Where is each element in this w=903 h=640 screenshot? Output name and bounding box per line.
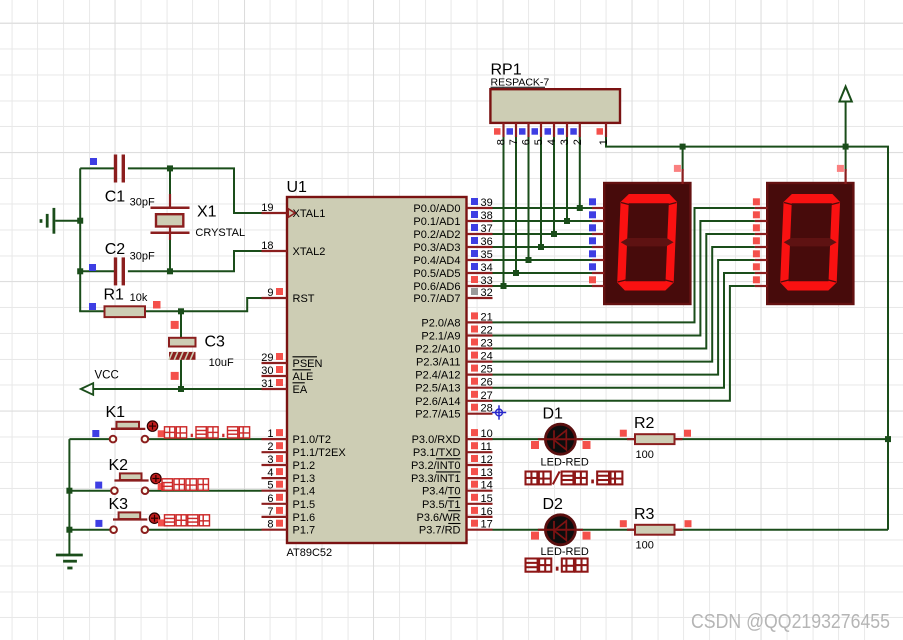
node junction RP1-3/P0.1 — [564, 218, 570, 224]
svg-text:22: 22 — [481, 325, 493, 337]
pin 31 (EA) — [262, 388, 288, 390]
svg-text:P3.2/INT0: P3.2/INT0 — [411, 460, 461, 472]
svg-text:9: 9 — [267, 287, 273, 299]
resistor pack RP1 body — [490, 89, 620, 123]
svg-text:37: 37 — [481, 223, 493, 235]
state square R2 left — [620, 430, 627, 437]
svg-text:21: 21 — [481, 311, 493, 323]
pin 36 (P0.3/AD3) — [467, 246, 493, 248]
pin 35 (P0.4/AD4) — [467, 259, 493, 261]
state square K2 left — [95, 482, 102, 489]
7-seg display DS1 body — [604, 183, 690, 304]
svg-text:R3: R3 — [634, 506, 655, 523]
label D1 function (red CJK bold) — [526, 472, 538, 485]
state square K1 right — [158, 430, 165, 437]
svg-text:1: 1 — [267, 428, 273, 440]
node junction RP1-6/P0.4 — [526, 257, 532, 263]
DS1 segment pin c — [592, 233, 604, 235]
DS1 segment pin a — [592, 207, 604, 209]
pin 37 (P0.2/AD2) — [467, 233, 493, 235]
DS1 segment pin b — [592, 220, 604, 222]
wire K3 row — [69, 529, 110, 531]
svg-text:7: 7 — [508, 139, 520, 145]
wire R3 to rail — [675, 529, 889, 531]
DS2 segment pin b — [755, 220, 767, 222]
wire crystal top branch — [169, 167, 171, 208]
pin 34 (P0.5/AD5) — [467, 272, 493, 274]
RP1 pin 3 — [566, 123, 568, 137]
pin 3 (P1.2) — [262, 464, 288, 466]
svg-text:VCC: VCC — [95, 370, 119, 382]
svg-text:P0.4/AD4: P0.4/AD4 — [413, 255, 460, 267]
pin 28 (P2.7/A15) — [467, 413, 493, 415]
svg-text:P1.1/T2EX: P1.1/T2EX — [293, 447, 347, 459]
pin 8 (P1.7) — [262, 529, 288, 531]
ground (crystal) — [53, 208, 56, 234]
state square R1 left — [89, 303, 96, 310]
power arrow (display supply) — [839, 87, 851, 102]
svg-text:P2.0/A8: P2.0/A8 — [421, 317, 460, 329]
svg-text:R1: R1 — [104, 287, 125, 304]
wire P0.2 net to display1 — [493, 233, 593, 235]
node junction at ground tap — [77, 218, 83, 224]
svg-text:19: 19 — [261, 202, 273, 214]
svg-text:6: 6 — [267, 493, 273, 505]
svg-text:P0.2/AD2: P0.2/AD2 — [413, 229, 460, 241]
svg-text:C1: C1 — [105, 189, 126, 206]
pin 27 (P2.6/A14) — [467, 400, 493, 402]
wire P0.4 net to display1 — [493, 259, 593, 261]
svg-text:24: 24 — [481, 351, 493, 363]
wire P2.1 net to display2 — [493, 221, 755, 336]
wire P0.3 net to display1 — [493, 246, 593, 248]
svg-text:35: 35 — [481, 249, 493, 261]
pin 6 (P1.5) — [262, 503, 288, 505]
7-seg display DS2 digit 0 — [780, 194, 841, 291]
svg-text:3: 3 — [559, 139, 571, 145]
svg-text:28: 28 — [481, 403, 493, 415]
svg-text:P1.6: P1.6 — [293, 512, 316, 524]
svg-text:K3: K3 — [109, 496, 129, 513]
switch K3 — [119, 512, 141, 519]
wire power arrow stem — [845, 99, 847, 148]
pin 10 (P3.0/RXD) — [467, 438, 493, 440]
svg-text:LED-RED: LED-RED — [541, 457, 589, 469]
RP1 pin 5 — [540, 123, 542, 137]
DS2 segment pin f — [755, 272, 767, 274]
DS2 segment pin c — [755, 233, 767, 235]
svg-text:P2.4/A12: P2.4/A12 — [415, 370, 460, 382]
DS2 segment pin g — [755, 285, 767, 287]
node junction C1/XTAL1 — [167, 165, 173, 171]
resistor R1 — [105, 306, 146, 317]
svg-text:4: 4 — [267, 467, 273, 479]
DS2 segment pin e — [755, 259, 767, 261]
svg-text:CSDN @QQ2193276455: CSDN @QQ2193276455 — [691, 610, 890, 633]
state square R3 right — [685, 520, 692, 527]
svg-text:15: 15 — [481, 493, 493, 505]
svg-text:AT89C52: AT89C52 — [287, 547, 333, 559]
wire K1 row — [69, 438, 109, 440]
wire P2.4 net to display2 — [493, 260, 755, 375]
pin 21 (P2.0/A8) — [467, 321, 493, 323]
label D2 function (red CJK bold) — [526, 559, 538, 572]
svg-text:K2: K2 — [109, 457, 129, 474]
svg-text:P0.7/AD7: P0.7/AD7 — [413, 293, 460, 305]
node junction rail/display1 anode — [680, 144, 686, 150]
svg-text:RST: RST — [293, 293, 315, 305]
svg-text:30: 30 — [261, 365, 273, 377]
pin 29 (PSEN) — [262, 362, 288, 364]
node junction RP1-5/P0.3 — [538, 244, 544, 250]
svg-text:34: 34 — [481, 262, 493, 274]
svg-text:EA: EA — [293, 384, 308, 396]
wire RP1 pin 3 vertical — [566, 137, 568, 222]
state square K2 right — [158, 483, 165, 490]
pin 25 (P2.4/A12) — [467, 374, 493, 376]
wire R2 to rail — [675, 438, 889, 440]
wire R1 right to RST pin 9 — [145, 298, 262, 311]
pin 9 (RST) — [262, 297, 288, 299]
svg-text:P1.4: P1.4 — [293, 486, 316, 498]
svg-text:P0.3/AD3: P0.3/AD3 — [413, 242, 460, 254]
svg-text:C3: C3 — [205, 334, 226, 351]
DS2 segment pin a — [755, 207, 767, 209]
RP1 pin 6 — [527, 123, 529, 137]
svg-text:PSEN: PSEN — [293, 358, 323, 370]
wire P2.2 net to display2 — [493, 234, 755, 349]
svg-text:K1: K1 — [106, 404, 126, 421]
node junction left bus at C2 — [77, 268, 83, 274]
svg-text:16: 16 — [481, 506, 493, 518]
svg-text:18: 18 — [261, 240, 273, 252]
svg-text:33: 33 — [481, 275, 493, 287]
wire P3.7 to D2 — [493, 529, 548, 531]
svg-text:26: 26 — [481, 377, 493, 389]
svg-text:11: 11 — [481, 441, 492, 453]
pin 24 (P2.3/A11) — [467, 361, 493, 363]
svg-text:8: 8 — [267, 519, 273, 531]
pin 17 (P3.7/RD) — [467, 529, 493, 531]
svg-text:13: 13 — [481, 467, 493, 479]
wire crystal bottom branch — [169, 232, 171, 272]
state square K1 left — [92, 430, 99, 437]
node junction C3/VCC rail — [178, 386, 184, 392]
svg-text:30pF: 30pF — [130, 251, 155, 263]
node junction C2/XTAL2 — [167, 268, 173, 274]
svg-text:P1.5: P1.5 — [293, 499, 316, 511]
capacitor C3 — [169, 338, 196, 347]
svg-text:P0.6/AD6: P0.6/AD6 — [413, 281, 460, 293]
pin 5 (P1.4) — [262, 490, 288, 492]
wire XTAL2 net (C2 row to pin 18) — [80, 270, 116, 272]
wire left vertical (C1-C2-R1 bus) — [79, 168, 81, 311]
node junction RP1-8/P0.6 — [501, 283, 507, 289]
state square C2 — [89, 264, 96, 271]
wire P2.6 net to display2 — [493, 286, 755, 401]
crystal X1 — [169, 194, 171, 208]
wire P3.0 to D1 — [493, 438, 548, 440]
svg-text:D2: D2 — [543, 496, 564, 513]
svg-text:RESPACK-7: RESPACK-7 — [491, 77, 550, 89]
op-amp U1 body (AT89C52) — [287, 197, 467, 543]
RP1 pin 1 — [605, 123, 607, 137]
svg-text:P3.4/T0: P3.4/T0 — [422, 486, 461, 498]
svg-text:P3.0/RXD: P3.0/RXD — [412, 434, 461, 446]
svg-text:5: 5 — [267, 480, 273, 492]
DS1 segment pin f — [592, 272, 604, 274]
state square D1 left — [531, 441, 539, 449]
state square D2 left — [531, 532, 539, 540]
svg-text:P1.2: P1.2 — [293, 460, 316, 472]
pin 33 (P0.6/AD6) — [467, 285, 493, 287]
state square C3 top — [171, 321, 179, 329]
svg-text:D1: D1 — [543, 406, 564, 423]
capacitor C2 — [114, 257, 117, 285]
wire R1 left — [79, 310, 105, 312]
svg-text:1: 1 — [598, 139, 610, 145]
LED D2 — [545, 515, 575, 545]
node junction R1/C3 — [178, 308, 184, 314]
switch K1 — [117, 422, 140, 429]
pin 39 (P0.0/AD0) — [467, 207, 493, 209]
svg-text:P1.0/T2: P1.0/T2 — [293, 434, 332, 446]
svg-text:32: 32 — [481, 287, 493, 299]
label K1 function (red CJK) — [165, 427, 175, 438]
resistor R2 — [627, 438, 635, 440]
state square C1 — [90, 158, 97, 165]
7-seg display DS2 body — [767, 183, 853, 304]
wire RP1 pin1 to VCC rail — [606, 137, 888, 530]
label K2 function (red CJK) — [162, 479, 172, 490]
svg-text:27: 27 — [481, 390, 493, 402]
wire ground tap — [55, 220, 80, 222]
svg-text:R2: R2 — [634, 415, 655, 432]
svg-text:31: 31 — [261, 378, 273, 390]
svg-text:P2.6/A14: P2.6/A14 — [415, 396, 460, 408]
node junction RP1-4/P0.2 — [551, 231, 557, 237]
svg-text:P3.3/INT1: P3.3/INT1 — [411, 473, 461, 485]
svg-text:7: 7 — [267, 506, 273, 518]
pin 11 (P3.1/TXD) — [467, 451, 493, 453]
wire RP1 pin 4 vertical — [553, 137, 555, 235]
pin 18 (XTAL2) — [262, 250, 288, 252]
svg-text:U1: U1 — [287, 179, 308, 196]
svg-text:100: 100 — [636, 449, 654, 461]
RP1 pin 2 — [579, 123, 581, 137]
DS1 anode stub — [681, 169, 683, 184]
state square D2 right — [583, 532, 591, 540]
pin 19 (XTAL1) — [262, 212, 288, 214]
svg-text:CRYSTAL: CRYSTAL — [195, 227, 245, 239]
DS2 anode stub — [844, 169, 846, 184]
svg-text:100: 100 — [636, 540, 654, 552]
DS1 segment pin e — [592, 259, 604, 261]
wire P2.3 net to display2 — [493, 247, 755, 362]
wire P0.5 net to display1 — [493, 272, 593, 274]
pin 16 (P3.6/WR) — [467, 516, 493, 518]
pin 15 (P3.5/T1) — [467, 503, 493, 505]
capacitor C1 — [114, 155, 117, 183]
pin 1 (P1.0/T2) — [262, 438, 288, 440]
svg-text:17: 17 — [481, 519, 493, 531]
wire P0.6 net to display1 — [493, 285, 593, 287]
svg-text:P0.5/AD5: P0.5/AD5 — [413, 268, 460, 280]
svg-text:8: 8 — [496, 139, 508, 145]
clock arrow pin 19 — [288, 209, 295, 218]
svg-text:25: 25 — [481, 364, 493, 376]
state square D1 right — [583, 441, 591, 449]
pin 38 (P0.1/AD1) — [467, 220, 493, 222]
svg-text:10k: 10k — [130, 292, 148, 304]
wire P2.5 net to display2 — [493, 273, 755, 388]
svg-text:2: 2 — [572, 139, 584, 145]
node junction K bus/K3 — [66, 527, 72, 533]
svg-text:P2.5/A13: P2.5/A13 — [415, 383, 460, 395]
7-seg display DS1 digit 0 — [617, 194, 678, 291]
DS2 segment pin d — [755, 246, 767, 248]
svg-text:P3.6/WR: P3.6/WR — [416, 512, 460, 524]
svg-text:3: 3 — [267, 454, 273, 466]
pin 4 (P1.3) — [262, 477, 288, 479]
wire display1 anode drop — [682, 147, 684, 171]
svg-text:XTAL2: XTAL2 — [293, 246, 326, 258]
svg-text:P0.1/AD1: P0.1/AD1 — [413, 216, 460, 228]
svg-text:P2.3/A11: P2.3/A11 — [416, 357, 460, 369]
wire P0.0 net to display1 — [493, 207, 593, 209]
wire RP1 pin 8 vertical — [503, 137, 505, 287]
wire XTAL1 net (C1 top rail to pin 19) — [80, 167, 116, 169]
pin 23 (P2.2/A10) — [467, 347, 493, 349]
RP1 pin 4 — [553, 123, 555, 137]
state square R3 left — [620, 520, 627, 527]
svg-text:23: 23 — [481, 338, 493, 350]
label K3 function (red CJK) — [165, 515, 175, 526]
RP1 pin 8 — [502, 123, 504, 137]
pin 22 (P2.1/A9) — [467, 334, 493, 336]
LED D1 — [545, 424, 575, 454]
svg-text:14: 14 — [481, 480, 493, 492]
pin 12 (P3.2/INT0) — [467, 464, 493, 466]
state square K3 left — [95, 520, 102, 527]
svg-text:LED-RED: LED-RED — [541, 546, 589, 558]
pin 26 (P2.5/A13) — [467, 387, 493, 389]
wire K2 row — [69, 490, 111, 492]
wire display2 anode drop — [845, 147, 847, 171]
power VCC arrow — [81, 383, 93, 395]
svg-text:X1: X1 — [197, 204, 217, 221]
wire K bus left vertical — [68, 439, 70, 555]
wire D1 to R2 — [577, 438, 635, 440]
svg-text:4: 4 — [546, 139, 558, 145]
svg-text:P1.7: P1.7 — [293, 525, 316, 537]
RP1 pin 7 — [515, 123, 517, 137]
svg-text:6: 6 — [521, 139, 533, 145]
node junction RP1-7/P0.5 — [513, 270, 519, 276]
svg-text:XTAL1: XTAL1 — [293, 208, 326, 220]
svg-text:ALE: ALE — [293, 371, 314, 383]
wire RP1 pin 6 vertical — [528, 137, 530, 261]
wire P0.1 net to display1 — [493, 220, 593, 222]
pin 2 (P1.1/T2EX) — [262, 451, 288, 453]
pin 7 (P1.6) — [262, 516, 288, 518]
svg-text:P1.3: P1.3 — [293, 473, 316, 485]
resistor R3 — [627, 529, 635, 531]
svg-text:10: 10 — [481, 428, 493, 440]
node junction RP1-2/P0.0 — [577, 205, 583, 211]
state square R1 right — [153, 301, 161, 309]
state square C3 bottom — [171, 372, 179, 380]
wire C3 top branch — [180, 310, 182, 338]
svg-text:38: 38 — [481, 210, 493, 222]
svg-text:P3.1/TXD: P3.1/TXD — [413, 447, 461, 459]
wire VCC rail to pin 31 — [93, 388, 262, 390]
pin 32 (P0.7/AD7) — [467, 297, 493, 299]
wire RP1 pin 7 vertical — [515, 137, 517, 274]
node junction rail/display2 anode — [843, 144, 849, 150]
state square R2 right — [684, 430, 691, 437]
pin 30 (ALE) — [262, 375, 288, 377]
wire C3 bottom branch — [180, 360, 182, 390]
wire RP1 pin 5 vertical — [540, 137, 542, 248]
svg-text:29: 29 — [261, 352, 273, 364]
svg-text:P2.7/A15: P2.7/A15 — [415, 409, 460, 421]
svg-text:C2: C2 — [105, 241, 126, 258]
pin 13 (P3.3/INT1) — [467, 477, 493, 479]
svg-text:P2.1/A9: P2.1/A9 — [421, 331, 460, 343]
pin 14 (P3.4/T0) — [467, 490, 493, 492]
svg-text:P0.0/AD0: P0.0/AD0 — [413, 203, 460, 215]
state square K3 right — [158, 519, 165, 526]
switch K2 — [120, 473, 142, 480]
wire RP1 pin 2 vertical — [579, 137, 581, 209]
wire D2 to R3 — [577, 529, 635, 531]
node junction K bus/K2 — [66, 488, 72, 494]
svg-text:10uF: 10uF — [209, 357, 234, 369]
svg-text:P3.5/T1: P3.5/T1 — [422, 499, 461, 511]
svg-text:36: 36 — [481, 236, 493, 248]
svg-text:2: 2 — [267, 441, 273, 453]
DS1 segment pin g — [592, 285, 604, 287]
svg-text:5: 5 — [533, 139, 545, 145]
svg-text:12: 12 — [481, 454, 493, 466]
DS1 segment pin d — [592, 246, 604, 248]
svg-text:P2.2/A10: P2.2/A10 — [415, 344, 460, 356]
ground (buttons) — [56, 554, 83, 557]
node junction rail/D1 row — [885, 436, 891, 442]
svg-text:39: 39 — [481, 197, 493, 209]
wire P2.0 net to display2 — [493, 208, 755, 322]
cursor crosshair — [492, 412, 506, 414]
svg-text:P3.7/RD: P3.7/RD — [419, 525, 461, 537]
